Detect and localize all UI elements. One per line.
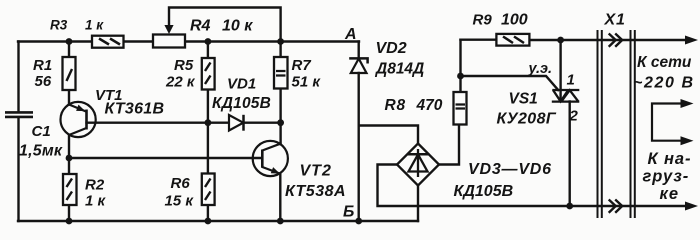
wire bridge plus to VD2 line — [359, 126, 418, 144]
svg-text:КД105В: КД105В — [454, 183, 514, 200]
wire VT1 collector to node — [68, 135, 70, 174]
svg-text:R4: R4 — [190, 18, 211, 35]
wire R9 to X1 — [530, 39, 686, 41]
svg-text:R8: R8 — [385, 97, 406, 114]
wire VD2 anode down to bottom rail — [358, 73, 360, 221]
wire R1 branch top — [68, 42, 70, 58]
svg-text:груз-: груз- — [643, 168, 690, 186]
svg-text:51 к: 51 к — [292, 74, 322, 91]
svg-text:C1: C1 — [32, 123, 51, 140]
resistor R8 — [454, 92, 467, 125]
arrow load exit — [685, 202, 698, 211]
svg-text:VT2: VT2 — [300, 163, 332, 180]
svg-text:VD1: VD1 — [227, 76, 256, 93]
transistor VT2 — [253, 141, 288, 176]
wire left vertical down to C1 — [17, 42, 19, 112]
svg-text:R7: R7 — [292, 57, 312, 74]
svg-text:Б: Б — [343, 203, 354, 220]
svg-text:56: 56 — [35, 73, 52, 90]
zener diode VD2 — [349, 58, 367, 73]
svg-text:2: 2 — [569, 108, 579, 125]
diode VD1 — [229, 115, 244, 131]
wire bottom rail — [18, 220, 418, 222]
svg-text:R5: R5 — [174, 57, 194, 74]
svg-text:X1: X1 — [604, 12, 626, 29]
wire node to VT2 collector — [279, 123, 281, 144]
wire top left rail — [18, 40, 359, 42]
svg-text:1 к: 1 к — [85, 193, 107, 210]
connector X1 chevron top — [609, 34, 623, 47]
wire R2 bottom — [68, 205, 70, 221]
svg-text:КД105В: КД105В — [212, 95, 271, 112]
resistor R3 — [92, 36, 124, 48]
svg-text:R6: R6 — [171, 175, 191, 192]
svg-text:КТ361В: КТ361В — [105, 101, 165, 118]
resistor R4 potentiometer — [153, 35, 185, 48]
bridge rectifier VD3-VD6 — [397, 144, 439, 186]
wire bridge bottom corner to rail — [417, 186, 419, 222]
resistor R1 — [63, 57, 76, 90]
capacitor C1 — [5, 112, 33, 117]
svg-text:у.э.: у.э. — [528, 61, 553, 77]
svg-text:VS1: VS1 — [509, 91, 538, 108]
wire VT1 base to VD1 node — [87, 121, 208, 123]
svg-text:К сети: К сети — [637, 54, 692, 71]
wire R4 wiper loop — [169, 8, 281, 42]
svg-text:Д814Д: Д814Д — [374, 61, 424, 78]
wire R9 feed — [461, 39, 497, 41]
resistor R7 — [274, 57, 288, 89]
svg-text:VD3—VD6: VD3—VD6 — [468, 161, 552, 178]
wire C1 bottom to bottom rail — [17, 118, 19, 221]
svg-text:1,5мк: 1,5мк — [19, 142, 63, 159]
svg-text:R9: R9 — [473, 12, 493, 29]
wire load exit — [570, 205, 685, 207]
load bracket arrow top — [681, 99, 694, 108]
svg-text:КТ538А: КТ538А — [285, 183, 346, 200]
resistor R4 wiper arrow — [164, 25, 173, 34]
svg-text:470: 470 — [416, 97, 443, 114]
wire node A down to VD2 — [358, 42, 360, 59]
transistor VT1 — [61, 102, 96, 137]
wire VS1 cathode down — [569, 102, 571, 207]
wire VS1 gate — [461, 76, 559, 90]
svg-text:100: 100 — [501, 12, 528, 29]
wire VD1 node down through R6 — [207, 123, 209, 174]
svg-text:~220 В: ~220 В — [633, 75, 695, 92]
resistor R9 — [496, 34, 529, 46]
svg-text:КУ208Г: КУ208Г — [497, 111, 557, 128]
svg-text:15 к: 15 к — [165, 193, 195, 210]
svg-text:1 к: 1 к — [85, 18, 104, 33]
svg-text:А: А — [344, 26, 357, 43]
wire R6 bottom — [207, 205, 209, 221]
resistor R5 — [202, 58, 215, 90]
svg-text:22 к: 22 к — [165, 74, 196, 91]
svg-text:1: 1 — [567, 72, 575, 89]
svg-text:R3: R3 — [50, 18, 68, 33]
svg-text:10 к: 10 к — [222, 18, 253, 35]
triac VS1 — [552, 90, 580, 102]
svg-text:ке: ке — [660, 185, 680, 203]
connector X1 double lines — [598, 30, 635, 218]
wire VD1 left lead — [208, 121, 229, 123]
arrow to mains — [685, 36, 698, 45]
wire R5 bottom to VD1 node — [207, 90, 209, 123]
wire bridge left corner loop — [378, 165, 570, 207]
wire node to VT2 base — [69, 157, 262, 159]
transistor VT1 emitter arrow — [76, 105, 85, 112]
resistor R6 — [202, 174, 215, 206]
wire R1 to VT1 emitter — [68, 90, 70, 105]
wire bridge right corner to R8 — [439, 125, 459, 165]
load bracket arrow bottom — [681, 136, 694, 145]
wire VT2 emitter to bottom rail — [279, 174, 281, 222]
connector X1 chevron bottom — [609, 200, 623, 213]
wire VS1 anode riser — [559, 40, 561, 101]
wire VD1 right lead — [244, 121, 281, 123]
wire R7 top — [279, 42, 281, 58]
svg-text:R2: R2 — [85, 177, 105, 194]
wire R7 bottom to node — [279, 89, 281, 123]
transistor VT2 emitter arrow — [271, 167, 280, 174]
wire R5 branch — [207, 42, 209, 59]
svg-text:К на-: К на- — [648, 150, 692, 168]
svg-text:R1: R1 — [33, 57, 52, 74]
load bracket — [652, 104, 682, 141]
svg-text:VD2: VD2 — [376, 40, 407, 57]
wire R8 top riser — [459, 40, 461, 92]
resistor R2 — [63, 174, 77, 205]
